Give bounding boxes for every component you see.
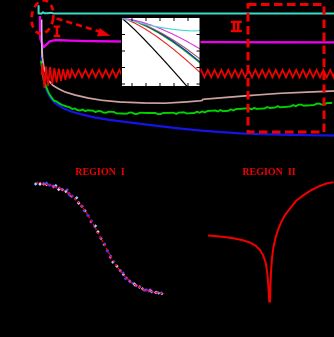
dashed box II	[248, 5, 324, 133]
svg-text:REGION II: REGION II	[242, 167, 295, 178]
curve red oscillating (top panel)	[42, 64, 334, 89]
curve blue (top panel)	[41, 57, 334, 136]
region I data markers	[34, 181, 164, 295]
curve tan (top panel)	[42, 30, 334, 103]
arrow head	[97, 28, 111, 36]
spike gray-white	[41, 20, 43, 58]
dashed ellipse I	[29, 0, 55, 35]
inset curve magenta	[122, 19, 200, 50]
curve magenta (top panel)	[40, 16, 334, 47]
inset curve cyan	[122, 19, 200, 31]
svg-text:REGION I: REGION I	[75, 167, 125, 178]
region II resonance curve	[208, 182, 334, 301]
inset curve red	[122, 19, 200, 73]
inset curve gray	[122, 19, 200, 60]
curve green (top panel)	[41, 61, 332, 114]
label II	[231, 21, 242, 32]
inset box	[122, 18, 201, 102]
curve cyan (top panel)	[39, 5, 334, 13]
inset ticks	[122, 18, 201, 87]
inset curve black	[122, 19, 200, 102]
inset curve blue	[122, 19, 200, 63]
inset curve green	[122, 19, 200, 64]
region I fit line (red dashed)	[37, 183, 165, 294]
label I	[54, 26, 61, 38]
dashed arrow	[57, 19, 100, 32]
